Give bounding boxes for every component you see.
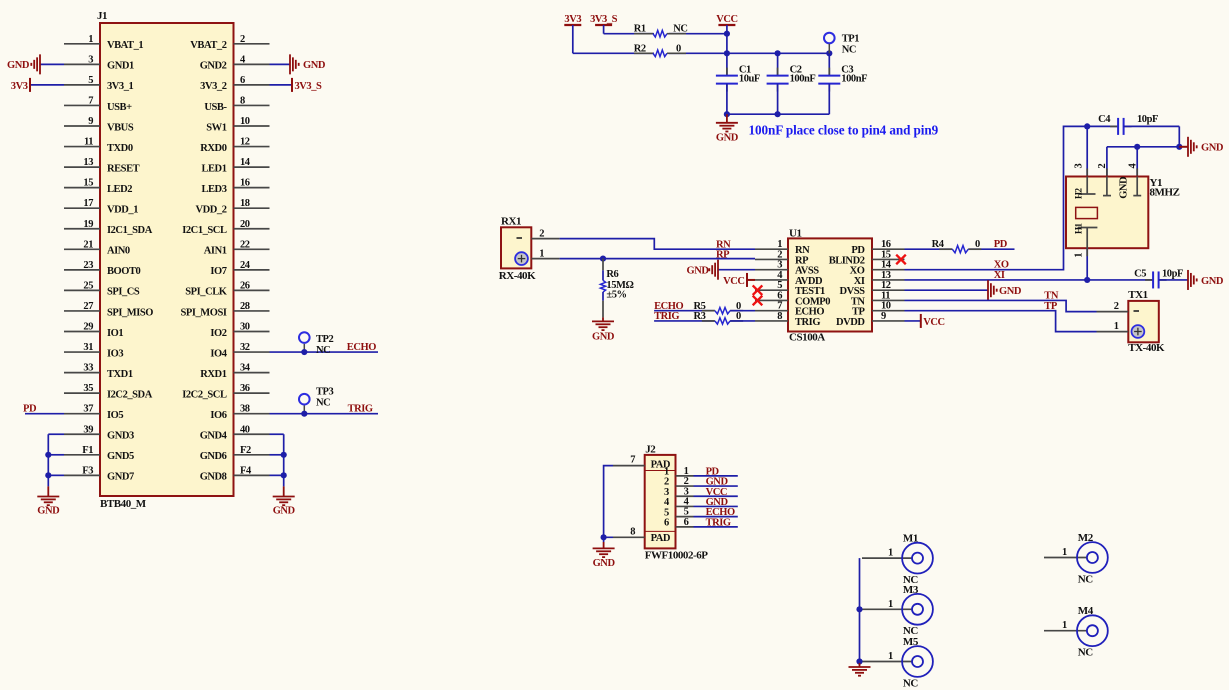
svg-text:15: 15 bbox=[83, 178, 93, 189]
svg-text:100nF: 100nF bbox=[841, 74, 867, 85]
svg-text:6: 6 bbox=[240, 75, 245, 86]
svg-text:21: 21 bbox=[83, 239, 93, 250]
svg-text:GND: GND bbox=[687, 266, 710, 277]
svg-text:31: 31 bbox=[83, 342, 93, 353]
svg-text:GND4: GND4 bbox=[200, 431, 228, 442]
svg-text:M1: M1 bbox=[903, 533, 918, 545]
svg-text:M3: M3 bbox=[903, 584, 919, 596]
svg-text:TP2: TP2 bbox=[316, 334, 334, 345]
svg-text:100nF: 100nF bbox=[790, 74, 816, 85]
svg-text:37: 37 bbox=[83, 404, 93, 415]
svg-text:FWF10002-6P: FWF10002-6P bbox=[645, 550, 709, 562]
svg-text:PD: PD bbox=[994, 239, 1008, 250]
svg-text:TXD1: TXD1 bbox=[107, 369, 133, 380]
svg-text:F4: F4 bbox=[240, 465, 252, 476]
svg-text:GND2: GND2 bbox=[200, 61, 227, 72]
svg-text:VCC: VCC bbox=[716, 14, 737, 25]
svg-text:GND5: GND5 bbox=[107, 451, 134, 462]
svg-text:VBUS: VBUS bbox=[107, 122, 134, 133]
svg-text:38: 38 bbox=[240, 404, 250, 415]
svg-text:1: 1 bbox=[1062, 547, 1067, 558]
svg-text:GND: GND bbox=[303, 60, 326, 71]
svg-text:TRIG: TRIG bbox=[348, 404, 373, 415]
svg-text:10: 10 bbox=[240, 116, 250, 127]
svg-text:IO2: IO2 bbox=[210, 328, 226, 339]
svg-text:TP: TP bbox=[1044, 301, 1058, 312]
svg-text:GND7: GND7 bbox=[107, 472, 134, 483]
svg-text:GND: GND bbox=[37, 506, 60, 517]
svg-text:VCC: VCC bbox=[723, 276, 744, 287]
svg-text:1: 1 bbox=[888, 651, 893, 662]
svg-text:40: 40 bbox=[240, 424, 250, 435]
svg-text:M2: M2 bbox=[1078, 532, 1094, 544]
svg-text:LED2: LED2 bbox=[107, 184, 132, 195]
svg-text:11: 11 bbox=[84, 137, 93, 148]
svg-text:VDD_1: VDD_1 bbox=[107, 205, 138, 216]
svg-text:3V3: 3V3 bbox=[11, 81, 28, 92]
svg-text:AIN1: AIN1 bbox=[204, 246, 227, 257]
svg-text:J1: J1 bbox=[97, 10, 107, 22]
svg-text:BOOT0: BOOT0 bbox=[107, 266, 141, 277]
svg-text:RXD0: RXD0 bbox=[200, 143, 226, 154]
svg-text:12: 12 bbox=[240, 137, 250, 148]
svg-text:NC: NC bbox=[842, 45, 856, 56]
svg-text:I2C1_SDA: I2C1_SDA bbox=[107, 225, 153, 236]
svg-text:27: 27 bbox=[83, 301, 93, 312]
svg-text:1: 1 bbox=[1114, 321, 1119, 332]
svg-text:USB-: USB- bbox=[204, 102, 227, 113]
svg-text:28: 28 bbox=[240, 301, 250, 312]
svg-text:GND: GND bbox=[7, 60, 30, 71]
svg-text:0: 0 bbox=[736, 311, 741, 322]
svg-text:VBAT_1: VBAT_1 bbox=[107, 40, 143, 51]
svg-text:RXD1: RXD1 bbox=[200, 369, 226, 380]
svg-text:20: 20 bbox=[240, 219, 250, 230]
svg-text:16: 16 bbox=[240, 178, 250, 189]
svg-text:GND8: GND8 bbox=[200, 472, 227, 483]
svg-text:13: 13 bbox=[83, 157, 93, 168]
svg-text:1: 1 bbox=[1074, 253, 1085, 258]
svg-text:GND: GND bbox=[716, 133, 739, 144]
svg-text:TRIG: TRIG bbox=[654, 311, 679, 322]
svg-text:NC: NC bbox=[1078, 647, 1093, 659]
svg-text:F3: F3 bbox=[82, 465, 93, 476]
svg-text:2: 2 bbox=[1097, 164, 1108, 169]
svg-text:2: 2 bbox=[1114, 301, 1119, 312]
svg-text:F1: F1 bbox=[82, 445, 93, 456]
svg-text:8: 8 bbox=[777, 311, 782, 322]
svg-text:I2C2_SDA: I2C2_SDA bbox=[107, 389, 153, 400]
svg-text:R4: R4 bbox=[932, 239, 945, 250]
svg-text:23: 23 bbox=[83, 260, 93, 271]
svg-text:SPI_CLK: SPI_CLK bbox=[185, 287, 227, 298]
svg-text:NC: NC bbox=[316, 345, 330, 356]
svg-text:5: 5 bbox=[88, 75, 93, 86]
svg-text:TRIG: TRIG bbox=[706, 517, 731, 528]
svg-text:TRIG: TRIG bbox=[795, 317, 820, 328]
svg-text:TP3: TP3 bbox=[316, 387, 334, 398]
svg-text:7: 7 bbox=[88, 95, 93, 106]
svg-text:0: 0 bbox=[676, 43, 681, 54]
svg-text:9: 9 bbox=[881, 311, 886, 322]
svg-text:3: 3 bbox=[88, 54, 93, 65]
svg-text:F2: F2 bbox=[240, 445, 251, 456]
svg-text:GND: GND bbox=[592, 332, 615, 343]
svg-text:0: 0 bbox=[975, 239, 980, 250]
svg-text:VBAT_2: VBAT_2 bbox=[190, 40, 226, 51]
svg-text:6: 6 bbox=[684, 517, 689, 528]
svg-text:TX-40K: TX-40K bbox=[1128, 342, 1165, 354]
svg-text:3V3_S: 3V3_S bbox=[295, 81, 323, 92]
svg-text:RX-40K: RX-40K bbox=[499, 270, 536, 282]
svg-text:19: 19 bbox=[83, 219, 93, 230]
svg-text:SPI_MOSI: SPI_MOSI bbox=[181, 307, 227, 318]
svg-text:TX1: TX1 bbox=[1128, 289, 1147, 301]
svg-text:25: 25 bbox=[83, 280, 93, 291]
svg-text:±5%: ±5% bbox=[606, 290, 626, 301]
svg-text:USB+: USB+ bbox=[107, 102, 132, 113]
svg-text:IO1: IO1 bbox=[107, 328, 123, 339]
svg-text:LED3: LED3 bbox=[201, 184, 226, 195]
svg-text:XI: XI bbox=[994, 270, 1005, 281]
svg-text:NC: NC bbox=[1078, 573, 1093, 585]
svg-text:GND: GND bbox=[273, 506, 296, 517]
svg-text:C4: C4 bbox=[1098, 114, 1111, 125]
svg-text:30: 30 bbox=[240, 322, 250, 333]
svg-text:BTB40_M: BTB40_M bbox=[100, 498, 147, 510]
svg-text:PD: PD bbox=[23, 404, 37, 415]
svg-text:TP1: TP1 bbox=[842, 34, 860, 45]
svg-text:GND: GND bbox=[1119, 176, 1130, 199]
svg-text:33: 33 bbox=[83, 363, 93, 374]
svg-text:3V3_2: 3V3_2 bbox=[200, 81, 227, 92]
svg-text:29: 29 bbox=[83, 322, 93, 333]
svg-text:1: 1 bbox=[888, 599, 893, 610]
svg-text:GND: GND bbox=[593, 558, 616, 569]
svg-text:GND1: GND1 bbox=[107, 61, 134, 72]
svg-text:17: 17 bbox=[83, 198, 93, 209]
svg-text:GND: GND bbox=[1201, 276, 1224, 287]
svg-text:1: 1 bbox=[1062, 620, 1067, 631]
svg-text:10uF: 10uF bbox=[739, 74, 760, 85]
svg-text:IO7: IO7 bbox=[210, 266, 226, 277]
svg-text:CS100A: CS100A bbox=[789, 331, 825, 343]
svg-text:RX1: RX1 bbox=[501, 215, 521, 227]
svg-text:NC: NC bbox=[673, 24, 687, 35]
svg-text:GND3: GND3 bbox=[107, 431, 134, 442]
svg-text:I2C2_SCL: I2C2_SCL bbox=[182, 389, 227, 400]
svg-text:H1: H1 bbox=[1074, 222, 1084, 234]
svg-text:10pF: 10pF bbox=[1137, 114, 1158, 125]
svg-text:VCC: VCC bbox=[923, 317, 944, 328]
svg-text:39: 39 bbox=[83, 424, 93, 435]
svg-text:U1: U1 bbox=[789, 228, 802, 240]
svg-text:M5: M5 bbox=[903, 636, 919, 648]
svg-text:TXD0: TXD0 bbox=[107, 143, 133, 154]
svg-text:8: 8 bbox=[240, 95, 245, 106]
svg-text:IO6: IO6 bbox=[210, 410, 226, 421]
svg-text:IO5: IO5 bbox=[107, 410, 123, 421]
svg-text:6: 6 bbox=[664, 517, 669, 528]
svg-text:18: 18 bbox=[240, 198, 250, 209]
svg-text:LED1: LED1 bbox=[201, 163, 226, 174]
svg-text:R1: R1 bbox=[634, 24, 646, 35]
svg-text:100nF place close to pin4 and: 100nF place close to pin4 and pin9 bbox=[749, 123, 939, 138]
svg-text:RP: RP bbox=[716, 250, 730, 261]
svg-text:7: 7 bbox=[630, 455, 635, 466]
svg-text:GND6: GND6 bbox=[200, 451, 227, 462]
svg-text:1: 1 bbox=[888, 548, 893, 559]
svg-text:H2: H2 bbox=[1074, 187, 1084, 199]
svg-text:35: 35 bbox=[83, 383, 93, 394]
svg-text:J2: J2 bbox=[645, 444, 656, 456]
svg-text:IO3: IO3 bbox=[107, 348, 123, 359]
svg-text:R6: R6 bbox=[606, 269, 618, 280]
svg-text:ECHO: ECHO bbox=[347, 342, 376, 353]
svg-text:24: 24 bbox=[240, 260, 251, 271]
svg-text:1: 1 bbox=[88, 34, 93, 45]
svg-text:3V3: 3V3 bbox=[564, 14, 581, 25]
svg-text:GND: GND bbox=[1201, 143, 1224, 154]
svg-text:26: 26 bbox=[240, 280, 250, 291]
svg-text:3V3_S: 3V3_S bbox=[590, 14, 618, 25]
svg-text:3: 3 bbox=[1074, 164, 1085, 169]
svg-text:SPI_MISO: SPI_MISO bbox=[107, 307, 153, 318]
svg-text:SW1: SW1 bbox=[206, 122, 226, 133]
svg-text:8MHZ: 8MHZ bbox=[1150, 187, 1180, 199]
svg-text:C5: C5 bbox=[1134, 269, 1146, 280]
svg-text:NC: NC bbox=[316, 398, 330, 409]
svg-text:RESET: RESET bbox=[107, 163, 140, 174]
svg-text:NC: NC bbox=[903, 677, 918, 689]
svg-text:36: 36 bbox=[240, 383, 250, 394]
svg-text:9: 9 bbox=[88, 116, 93, 127]
svg-text:10pF: 10pF bbox=[1162, 269, 1183, 280]
svg-text:I2C1_SCL: I2C1_SCL bbox=[182, 225, 227, 236]
svg-text:2: 2 bbox=[240, 34, 245, 45]
svg-text:R3: R3 bbox=[694, 311, 706, 322]
svg-text:3V3_1: 3V3_1 bbox=[107, 81, 134, 92]
svg-text:M4: M4 bbox=[1078, 605, 1094, 617]
svg-text:GND: GND bbox=[999, 286, 1022, 297]
svg-text:2: 2 bbox=[539, 228, 544, 239]
svg-text:DVDD: DVDD bbox=[836, 317, 865, 328]
svg-text:SPI_CS: SPI_CS bbox=[107, 287, 140, 298]
svg-text:VDD_2: VDD_2 bbox=[196, 205, 227, 216]
svg-text:AIN0: AIN0 bbox=[107, 246, 130, 257]
svg-text:8: 8 bbox=[630, 526, 635, 537]
svg-text:34: 34 bbox=[240, 363, 251, 374]
svg-text:PAD: PAD bbox=[651, 533, 671, 544]
svg-text:R2: R2 bbox=[634, 43, 646, 54]
svg-text:32: 32 bbox=[240, 342, 250, 353]
svg-text:1: 1 bbox=[539, 248, 544, 259]
svg-text:IO4: IO4 bbox=[210, 348, 227, 359]
svg-text:22: 22 bbox=[240, 239, 250, 250]
svg-text:14: 14 bbox=[240, 157, 251, 168]
